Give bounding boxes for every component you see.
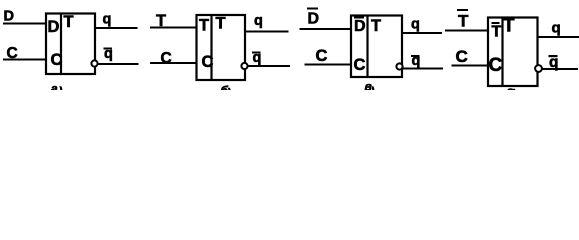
inversion bubble U1 xyxy=(91,60,97,66)
wire q-bar output U3 xyxy=(403,68,443,70)
svg-text:C: C xyxy=(354,56,366,74)
svg-text:T: T xyxy=(199,17,209,35)
wire q-bar output U2 xyxy=(248,65,290,67)
label D-bar net xyxy=(307,8,319,28)
svg-text:T: T xyxy=(216,15,226,33)
wire q output U1 xyxy=(95,27,138,29)
label D-bar input pin U3 xyxy=(354,17,366,36)
svg-text:T: T xyxy=(492,24,502,41)
svg-text:C: C xyxy=(489,55,503,76)
svg-text:D: D xyxy=(354,18,366,35)
wire C input U4 xyxy=(452,65,489,67)
label q-bar output U1 xyxy=(104,46,113,62)
wire q output U4 xyxy=(538,36,579,38)
svg-text:T: T xyxy=(64,13,74,31)
svg-text:а: а xyxy=(51,81,58,90)
flip-flop U3 body (inverse-D trigger) xyxy=(351,16,402,78)
wire T input U2 xyxy=(150,27,197,29)
label q-bar output U3 xyxy=(411,53,420,69)
caption a) xyxy=(51,81,63,98)
flip-flop U2 body (T-trigger) xyxy=(197,15,246,80)
wire C input U3 xyxy=(305,64,352,66)
svg-text:C: C xyxy=(7,45,18,62)
svg-text:q: q xyxy=(411,17,420,33)
label q-bar output U4 xyxy=(549,54,559,71)
svg-text:C: C xyxy=(202,53,214,71)
wire q-bar output U1 xyxy=(98,63,139,65)
svg-text:C: C xyxy=(51,51,63,69)
flip-flop U4 body (inverse-T trigger) xyxy=(488,18,538,87)
label T-bar input pin U4 xyxy=(492,22,502,41)
wire D-bar input U3 xyxy=(300,28,352,30)
svg-text:T: T xyxy=(371,17,381,35)
wire C input U2 xyxy=(150,62,197,64)
svg-text:C: C xyxy=(316,47,328,65)
label T-bar net xyxy=(457,9,469,31)
svg-text:D: D xyxy=(308,11,320,28)
caption b) xyxy=(221,83,232,100)
wire T-bar input U4 xyxy=(445,30,488,32)
wire C input U1 xyxy=(3,59,46,61)
svg-text:D: D xyxy=(48,18,60,36)
svg-text:T: T xyxy=(503,16,515,37)
svg-text:q: q xyxy=(254,13,263,29)
label q-bar output U2 xyxy=(252,50,261,66)
svg-text:C: C xyxy=(456,47,468,66)
wire D input U1 xyxy=(3,23,46,25)
wire q output U2 xyxy=(245,31,289,33)
svg-text:T: T xyxy=(156,12,166,30)
wire q-bar output U4 xyxy=(542,68,578,70)
caption g) xyxy=(507,84,516,101)
caption v) xyxy=(365,79,375,98)
flip-flop U1 body (D-trigger) xyxy=(46,14,95,75)
svg-text:q: q xyxy=(103,12,112,28)
svg-text:q: q xyxy=(552,19,561,36)
inversion bubble U2 xyxy=(241,63,247,69)
svg-text:D: D xyxy=(4,9,14,25)
svg-text:T: T xyxy=(458,12,469,31)
svg-text:C: C xyxy=(161,50,172,67)
inversion bubble U3 xyxy=(396,63,402,69)
wire q output U3 xyxy=(402,32,442,34)
inversion bubble U4 xyxy=(535,65,542,72)
